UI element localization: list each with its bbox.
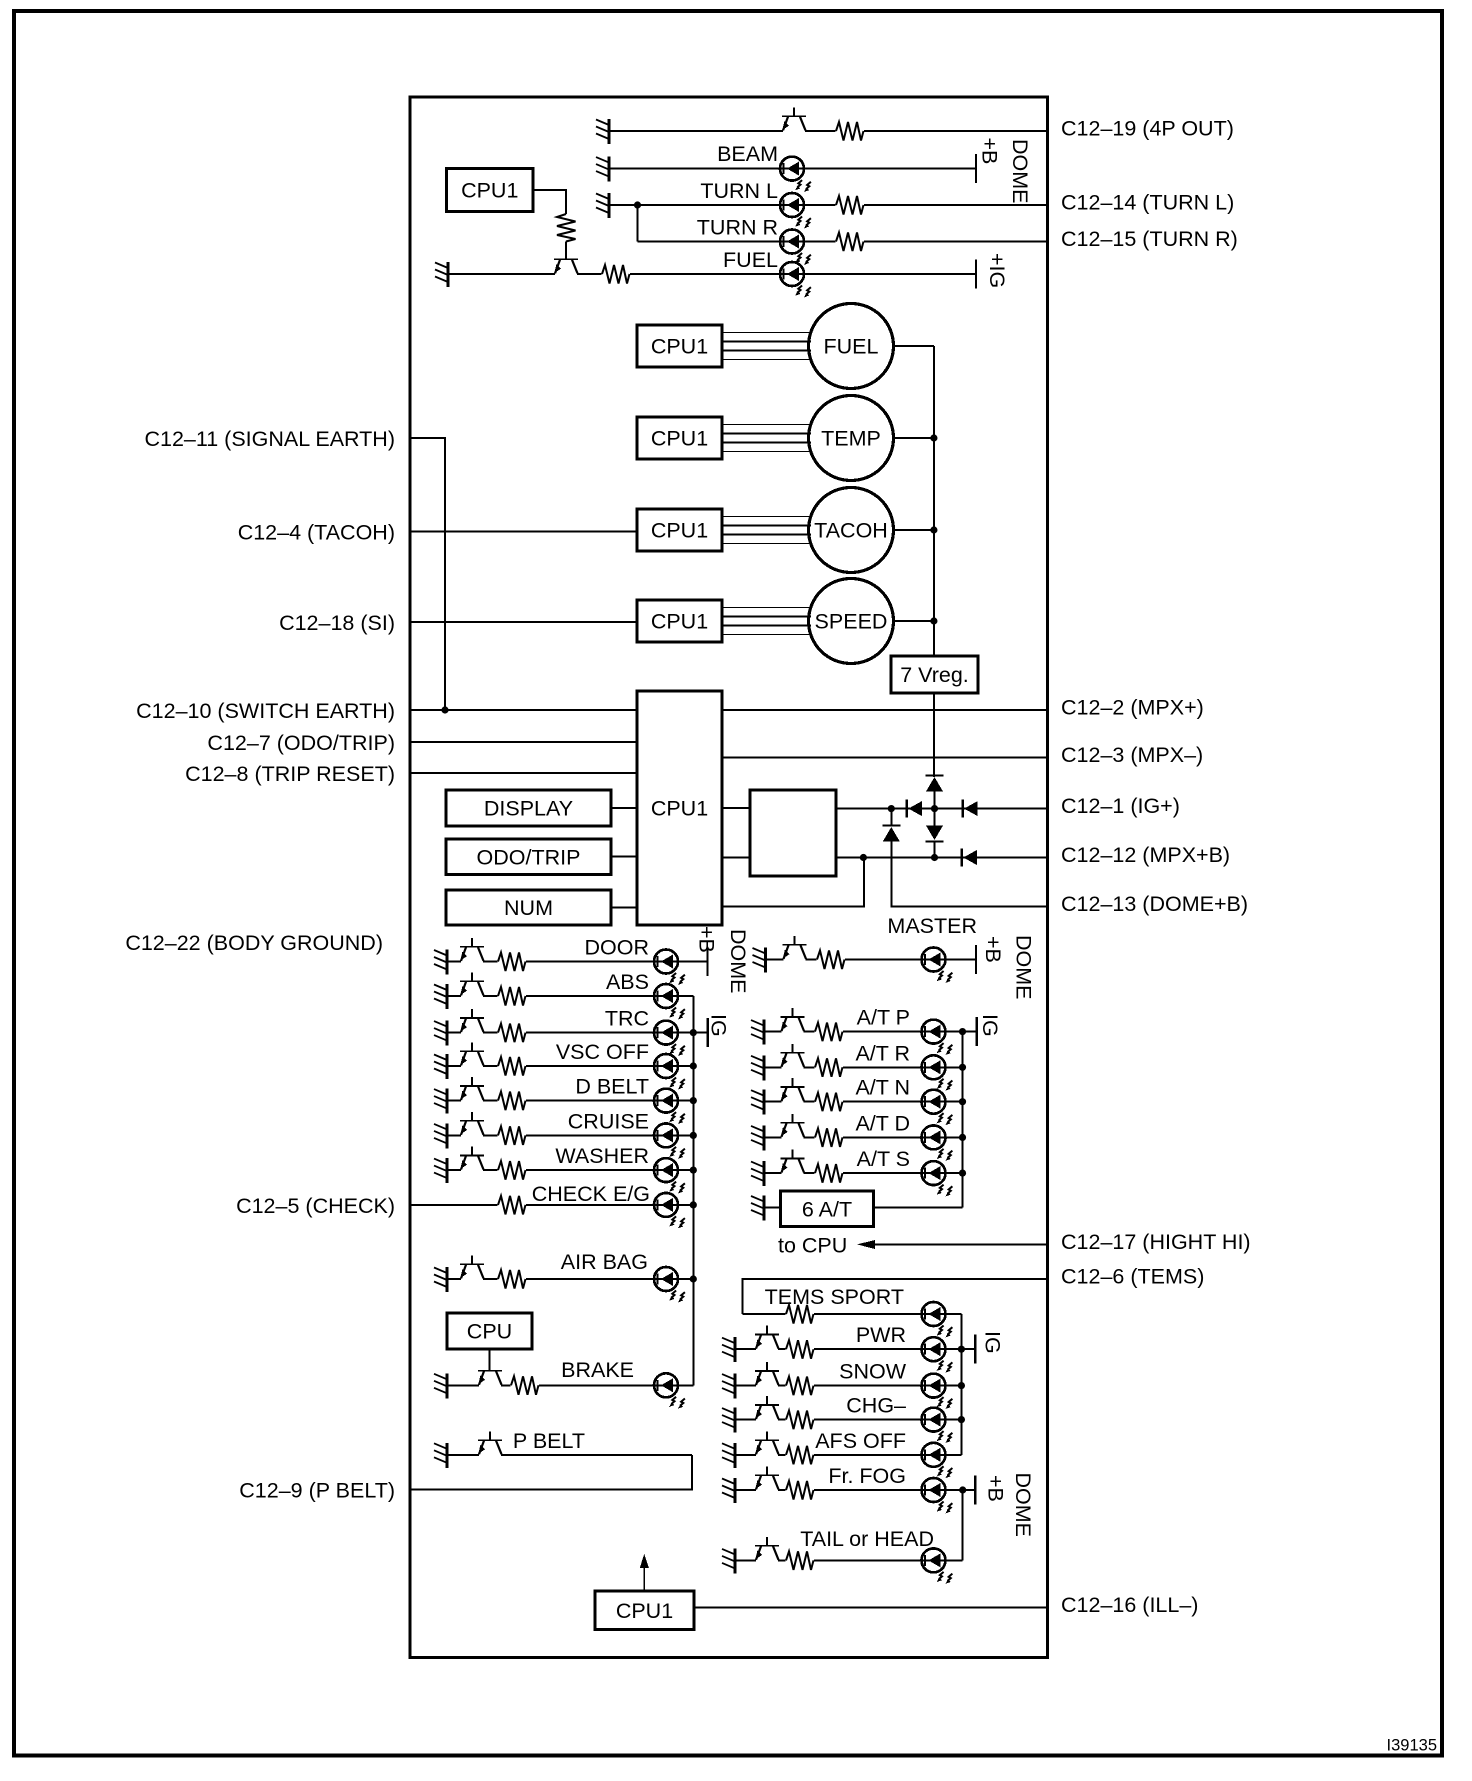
wire SPEED gauge to Vreg bus xyxy=(894,620,934,622)
svg-text:P BELT: P BELT xyxy=(513,1429,585,1453)
wire BRAKE row xyxy=(447,1384,693,1386)
diode D6 (DOME+B branch) xyxy=(882,826,900,842)
svg-text:PWR: PWR xyxy=(856,1323,906,1347)
wire C12-19 (4P OUT) row xyxy=(609,130,1047,132)
voltage regulator 7 Vreg. xyxy=(891,656,978,693)
wire TAIL branch vertical xyxy=(962,1490,964,1560)
resistor (SNOW row) xyxy=(786,1375,814,1397)
LED TEMS SPORT xyxy=(922,1302,953,1337)
svg-text:CPU1: CPU1 xyxy=(651,610,708,634)
wire TURN R row xyxy=(638,241,1048,243)
wire CHG– row xyxy=(735,1419,961,1421)
resistor (TRC row) xyxy=(498,1022,526,1044)
resistor (TEMS SPORT row) xyxy=(786,1303,814,1325)
wire C12-17 HIGHT HI input xyxy=(875,1243,1047,1245)
transistor (FUEL lamp driver) xyxy=(554,259,578,276)
junction dot (A/T P on A/T bus) xyxy=(959,1028,966,1035)
junction dot (SPEED on Vreg bus) xyxy=(930,617,937,624)
junction dot (signal earth junction) xyxy=(441,706,448,713)
LED AFS OFF xyxy=(922,1443,953,1478)
svg-text:SPEED: SPEED xyxy=(815,610,888,634)
svg-text:TURN L: TURN L xyxy=(700,179,778,203)
transistor (A/T D row driver) xyxy=(781,1114,805,1140)
svg-text:C12–4 (TACOH): C12–4 (TACOH) xyxy=(238,521,395,545)
svg-text:C12–11 (SIGNAL EARTH): C12–11 (SIGNAL EARTH) xyxy=(144,427,395,451)
svg-text:C12–13 (DOME+B): C12–13 (DOME+B) xyxy=(1061,892,1248,916)
svg-text:C12–15 (TURN R): C12–15 (TURN R) xyxy=(1061,227,1238,251)
wire Fr. FOG row xyxy=(735,1489,975,1491)
NUM block xyxy=(446,890,611,925)
wire ABS row xyxy=(447,995,693,997)
LED TURN L xyxy=(780,193,811,228)
diode D4 (Vreg bus lower) xyxy=(926,826,944,842)
LED TRC xyxy=(654,1021,685,1056)
svg-text:SNOW: SNOW xyxy=(839,1360,907,1384)
CPU1 block (illumination) xyxy=(595,1591,694,1630)
transistor (CHG– row driver) xyxy=(755,1396,779,1422)
LED VSC OFF xyxy=(654,1054,685,1089)
LED D BELT xyxy=(654,1089,685,1124)
svg-text:C12–22 (BODY GROUND): C12–22 (BODY GROUND) xyxy=(125,931,383,955)
LED A/T N xyxy=(922,1090,953,1125)
power terminal +B (MASTER) xyxy=(976,936,1005,974)
resistor (FUEL lamp row) xyxy=(602,263,630,285)
wire AFS OFF row xyxy=(735,1454,961,1456)
svg-text:C12–10 (SWITCH EARTH): C12–10 (SWITCH EARTH) xyxy=(136,699,395,723)
svg-text:CPU1: CPU1 xyxy=(616,1599,673,1623)
junction dot (CHG– on TEMS bus) xyxy=(958,1416,965,1423)
svg-text:WASHER: WASHER xyxy=(555,1144,649,1168)
LED CHECK E/G xyxy=(654,1193,685,1228)
svg-text:C12–12 (MPX+B): C12–12 (MPX+B) xyxy=(1061,843,1230,867)
svg-text:AIR BAG: AIR BAG xyxy=(561,1250,648,1274)
diode D3 (Vreg bus upper) xyxy=(926,776,944,792)
ground (CHG– row) xyxy=(722,1408,735,1433)
svg-text:BRAKE: BRAKE xyxy=(561,1358,634,1382)
ground (CRUISE row) xyxy=(434,1123,447,1148)
CPU1 block (FUEL gauge driver) xyxy=(637,325,722,367)
combination meter assembly outline xyxy=(410,97,1048,1658)
transistor (A/T S row driver) xyxy=(781,1150,805,1176)
resistor (4P OUT row) xyxy=(836,120,864,142)
svg-text:CPU1: CPU1 xyxy=(461,179,518,203)
wire gauge bus TEMP xyxy=(722,425,811,452)
wire Vreg bus seg3 xyxy=(934,842,936,858)
ground (ABS row) xyxy=(434,984,447,1009)
wire TAIL or HEAD row xyxy=(735,1559,963,1561)
wire MPX+B row xyxy=(836,857,1047,859)
junction dot (AIR BAG on IG bus) xyxy=(690,1275,697,1282)
wire WASHER row xyxy=(447,1169,693,1171)
power terminal +B (BEAM) xyxy=(976,138,1002,184)
transistor (4P OUT row driver) xyxy=(782,108,806,134)
LED WASHER xyxy=(654,1158,685,1193)
resistor (AFS OFF row) xyxy=(786,1444,814,1466)
wire P BELT row xyxy=(447,1454,692,1456)
svg-text:C12–16 (ILL–): C12–16 (ILL–) xyxy=(1061,1593,1198,1617)
svg-text:+B: +B xyxy=(984,1475,1008,1502)
junction dot (A/T N on A/T bus) xyxy=(959,1098,966,1105)
power terminal IG (TRC) xyxy=(707,1014,731,1047)
transistor (DOOR row driver) xyxy=(460,938,484,964)
diode D5 (MPX+B) xyxy=(962,849,977,867)
svg-text:+IG: +IG xyxy=(985,253,1009,288)
transistor (MASTER row driver) xyxy=(783,936,807,962)
svg-text:7 Vreg.: 7 Vreg. xyxy=(900,663,969,687)
svg-text:C12–18 (SI): C12–18 (SI) xyxy=(279,611,395,635)
wire A/T P row xyxy=(764,1031,977,1033)
wire P BELT to C12-9 xyxy=(410,1455,692,1490)
CPU1 block (TEMP gauge driver) xyxy=(637,417,722,459)
svg-text:TAIL or HEAD: TAIL or HEAD xyxy=(800,1527,934,1551)
wire TEMS bus vertical xyxy=(960,1314,962,1455)
power terminal IG (PWR) xyxy=(975,1331,1004,1364)
ground (TRC row) xyxy=(434,1021,447,1046)
svg-text:C12–17 (HIGHT HI): C12–17 (HIGHT HI) xyxy=(1061,1230,1251,1254)
svg-text:C12–5 (CHECK): C12–5 (CHECK) xyxy=(236,1194,395,1218)
wire TURN branch vertical xyxy=(637,205,639,242)
power terminal IG (A/T) xyxy=(977,1014,1002,1046)
svg-text:AFS OFF: AFS OFF xyxy=(815,1429,906,1453)
wire gauge bus TACOH xyxy=(722,517,811,544)
wire A/T R row xyxy=(764,1066,963,1068)
svg-text:MASTER: MASTER xyxy=(887,914,977,938)
6 A/T block xyxy=(781,1191,874,1227)
diode D2 (IG+ right) xyxy=(963,800,978,818)
driver IC block xyxy=(750,790,836,876)
LED A/T R xyxy=(922,1055,953,1090)
wire TEMP gauge to Vreg bus xyxy=(894,437,934,439)
resistor (ABS row) xyxy=(498,985,526,1007)
power terminal +IG (FUEL) xyxy=(976,253,1009,289)
resistor (A/T R row) xyxy=(815,1056,843,1078)
transistor (ABS row driver) xyxy=(460,973,484,999)
wire MPX- output xyxy=(722,757,1047,759)
ground (PWR row) xyxy=(722,1337,735,1362)
junction dot (CRUISE on IG bus) xyxy=(690,1132,697,1139)
LED AIR BAG xyxy=(654,1267,685,1302)
ground (BRAKE row) xyxy=(434,1373,447,1398)
svg-text:ABS: ABS xyxy=(606,970,649,994)
svg-text:to CPU: to CPU xyxy=(778,1234,847,1258)
LED A/T D xyxy=(922,1125,953,1160)
junction dot (IG+ Vreg bus junction) xyxy=(931,805,938,812)
wire CPU1 to driver IC lower xyxy=(722,857,750,859)
ground (AFS OFF row) xyxy=(722,1443,735,1468)
LED ABS xyxy=(654,984,685,1019)
wire CHECK E/G row xyxy=(410,1204,693,1206)
wire MASTER row xyxy=(766,959,977,961)
wire 6 A/T to bus xyxy=(874,1207,963,1209)
ground (A/T D row) xyxy=(751,1125,764,1150)
wire switch earth / MPX+ row xyxy=(410,709,1047,711)
wire CPU1 lower feed to MPX+B node xyxy=(722,858,864,907)
junction dot (MPX+B bus junction) xyxy=(931,854,938,861)
ground (4P OUT row) xyxy=(596,119,609,144)
svg-text:TRC: TRC xyxy=(605,1007,649,1031)
wire FUEL gauge to Vreg bus xyxy=(894,345,934,347)
ground (SNOW row) xyxy=(722,1374,735,1399)
CPU1 block (lamp driver) xyxy=(447,169,534,212)
gauge TEMP xyxy=(809,396,894,481)
svg-text:C12–19 (4P OUT): C12–19 (4P OUT) xyxy=(1061,117,1234,141)
svg-text:C12–7 (ODO/TRIP): C12–7 (ODO/TRIP) xyxy=(207,731,395,755)
svg-text:DOME: DOME xyxy=(1008,139,1032,204)
transistor (BRAKE row driver) xyxy=(478,1371,502,1388)
svg-text:IG: IG xyxy=(981,1331,1005,1354)
wire PWR row xyxy=(735,1348,975,1350)
wire C12-18 SI input xyxy=(410,621,637,623)
svg-text:C12–14 (TURN L): C12–14 (TURN L) xyxy=(1061,191,1234,215)
svg-text:TACOH: TACOH xyxy=(814,519,888,543)
LED PWR xyxy=(922,1337,953,1372)
LED FUEL lamp xyxy=(780,262,811,297)
resistor (CHG– row) xyxy=(786,1409,814,1431)
LED A/T P xyxy=(922,1020,953,1055)
wire CRUISE row xyxy=(447,1134,693,1136)
transistor (PWR row driver) xyxy=(755,1326,779,1352)
svg-text:6 A/T: 6 A/T xyxy=(802,1197,852,1221)
wire C12-16 ILL- output xyxy=(694,1607,1047,1609)
svg-text:TEMP: TEMP xyxy=(821,427,881,451)
wire ODO/TRIP to CPU1 xyxy=(611,856,637,858)
svg-text:C12–8 (TRIP RESET): C12–8 (TRIP RESET) xyxy=(185,762,395,786)
DISPLAY block xyxy=(446,790,611,826)
junction dot (SNOW on TEMS bus) xyxy=(958,1382,965,1389)
LED MASTER xyxy=(922,948,953,983)
wire gauge bus SPEED xyxy=(722,608,811,635)
junction dot (WASHER on IG bus) xyxy=(690,1167,697,1174)
wire Vreg bus vertical xyxy=(933,346,935,656)
wire IG+ row xyxy=(836,808,1047,810)
wire IG+ to D6 xyxy=(890,809,892,826)
resistor (WASHER row) xyxy=(498,1159,526,1181)
svg-text:TEMS SPORT: TEMS SPORT xyxy=(765,1285,904,1309)
resistor (TURN R row) xyxy=(836,231,864,253)
wire Vreg bus seg2 xyxy=(934,809,936,826)
wire Vreg bus seg xyxy=(934,792,936,809)
svg-text:CHECK E/G: CHECK E/G xyxy=(532,1182,650,1206)
LED DOOR xyxy=(654,950,685,985)
resistor (A/T N row) xyxy=(815,1091,843,1113)
svg-text:DOME: DOME xyxy=(726,929,750,994)
svg-text:FUEL: FUEL xyxy=(824,335,879,359)
ground (WASHER row) xyxy=(434,1158,447,1183)
LED TURN R xyxy=(780,230,811,265)
junction dot (TURN branch) xyxy=(634,201,641,208)
ground (TAIL or HEAD row) xyxy=(722,1548,735,1573)
wire C12-11 signal earth xyxy=(410,438,445,710)
svg-text:A/T N: A/T N xyxy=(855,1076,910,1100)
transistor (WASHER row driver) xyxy=(460,1147,484,1173)
svg-text:C12–3 (MPX–): C12–3 (MPX–) xyxy=(1061,743,1203,767)
CPU1 block (SPEED gauge driver) xyxy=(637,600,722,642)
wire A/T D row xyxy=(764,1136,963,1138)
ODO/TRIP block xyxy=(446,839,611,875)
wire A/T bus vertical xyxy=(962,1032,964,1208)
LED A/T S xyxy=(922,1161,953,1196)
wire TRC row xyxy=(447,1032,708,1034)
transistor (TAIL or HEAD row driver) xyxy=(755,1537,779,1563)
wire DOME+B output xyxy=(891,842,1047,907)
svg-text:+B: +B xyxy=(978,138,1002,165)
transistor (A/T P row driver) xyxy=(781,1008,805,1034)
ground (6 A/T) xyxy=(751,1196,764,1221)
wire TEMS SPORT row xyxy=(743,1313,962,1315)
svg-text:TURN R: TURN R xyxy=(697,216,778,240)
svg-text:IG: IG xyxy=(707,1014,731,1037)
svg-text:C12–9 (P BELT): C12–9 (P BELT) xyxy=(239,1479,395,1503)
junction dot (TRC IG junction) xyxy=(690,1029,697,1036)
resistor (VSC OFF row) xyxy=(498,1055,526,1077)
svg-text:IG: IG xyxy=(978,1014,1002,1037)
svg-text:FUEL: FUEL xyxy=(723,248,778,272)
wire FUEL lamp row xyxy=(448,273,976,275)
wire base resistor to transistor xyxy=(565,242,567,260)
svg-text:CPU1: CPU1 xyxy=(651,519,708,543)
svg-text:BEAM: BEAM xyxy=(717,142,778,166)
ground (A/T P row) xyxy=(751,1020,764,1045)
power terminal +B (DOOR) xyxy=(695,926,719,976)
LED CRUISE xyxy=(654,1123,685,1158)
svg-text:CRUISE: CRUISE xyxy=(568,1109,649,1133)
svg-text:CPU1: CPU1 xyxy=(651,797,708,821)
junction dot (CHECK on IG bus) xyxy=(690,1201,697,1208)
svg-text:DISPLAY: DISPLAY xyxy=(484,797,573,821)
wire TACOH gauge to Vreg bus xyxy=(894,529,934,531)
wire AIR BAG row xyxy=(447,1278,693,1280)
wire D BELT row xyxy=(447,1100,693,1102)
junction dot (VSC OFF on IG bus) xyxy=(690,1062,697,1069)
wire Vreg to diode network xyxy=(933,693,935,777)
resistor (BRAKE row) xyxy=(511,1374,539,1396)
wire 6 A/T ground lead xyxy=(764,1207,781,1209)
wire IG lamp bus vertical xyxy=(692,996,694,1385)
resistor (PWR row) xyxy=(786,1338,814,1360)
diode D1 (IG+ left) xyxy=(907,800,922,818)
svg-text:DOME: DOME xyxy=(1012,935,1036,1000)
transistor (CRUISE row driver) xyxy=(460,1112,484,1138)
wire C12-6 TEMS input xyxy=(743,1279,1047,1314)
gauge TACOH xyxy=(809,488,894,573)
resistor (TAIL or HEAD row) xyxy=(786,1549,814,1571)
svg-text:A/T D: A/T D xyxy=(855,1111,910,1135)
junction dot (A/T S on A/T bus) xyxy=(959,1170,966,1177)
transistor (TRC row driver) xyxy=(460,1009,484,1035)
junction dot (MPX+B left junction) xyxy=(860,854,867,861)
LED Fr. FOG xyxy=(922,1478,953,1513)
wire A/T N row xyxy=(764,1101,963,1103)
resistor (FUEL base) xyxy=(557,214,576,242)
wire C12-4 TACOH input xyxy=(410,531,637,533)
wire BEAM row xyxy=(609,168,976,170)
LED BEAM xyxy=(780,157,811,192)
transistor (AIR BAG row driver) xyxy=(460,1256,484,1282)
wire CPU1 to base resistor xyxy=(533,190,566,214)
resistor (TURN L row) xyxy=(836,194,864,216)
junction dot (D BELT on IG bus) xyxy=(690,1097,697,1104)
resistor (Fr. FOG row) xyxy=(786,1479,814,1501)
svg-text:VSC OFF: VSC OFF xyxy=(556,1040,649,1064)
wire TRIP RESET input xyxy=(410,772,637,774)
ground (AIR BAG row) xyxy=(434,1267,447,1292)
svg-text:CPU1: CPU1 xyxy=(651,335,708,359)
svg-text:CHG–: CHG– xyxy=(846,1394,906,1418)
junction dot (PWR on TEMS bus) xyxy=(958,1346,965,1353)
ground (P BELT row) xyxy=(434,1443,447,1468)
svg-text:C12–2 (MPX+): C12–2 (MPX+) xyxy=(1061,696,1204,720)
ground (A/T R row) xyxy=(751,1055,764,1080)
junction dot (A/T R on A/T bus) xyxy=(959,1064,966,1071)
svg-text:+B: +B xyxy=(695,926,719,953)
arrow (illumination output up) xyxy=(640,1554,649,1591)
ground (BEAM row) xyxy=(596,157,609,182)
gauge FUEL xyxy=(809,304,894,389)
junction dot (A/T D on A/T bus) xyxy=(959,1134,966,1141)
ground (D BELT row) xyxy=(434,1089,447,1114)
ground (A/T S row) xyxy=(751,1161,764,1186)
arrowhead (to CPU) xyxy=(857,1240,875,1249)
svg-text:A/T R: A/T R xyxy=(855,1041,910,1065)
resistor (MASTER row) xyxy=(817,949,845,971)
wire CPU to BRAKE transistor base xyxy=(489,1349,491,1371)
resistor (CRUISE row) xyxy=(498,1124,526,1146)
svg-text:CPU: CPU xyxy=(467,1320,512,1344)
svg-text:CPU1: CPU1 xyxy=(651,427,708,451)
LED CHG– xyxy=(922,1408,953,1443)
transistor (Fr. FOG row driver) xyxy=(755,1467,779,1493)
CPU1 main microprocessor xyxy=(637,691,722,925)
resistor (A/T P row) xyxy=(815,1021,843,1043)
resistor (CHECK E/G row) xyxy=(498,1194,526,1216)
transistor (SNOW row driver) xyxy=(755,1362,779,1388)
wire DISPLAY to CPU1 xyxy=(611,807,637,809)
wire gauge bus FUEL xyxy=(722,333,811,360)
svg-text:A/T S: A/T S xyxy=(857,1147,910,1171)
transistor (VSC OFF row driver) xyxy=(460,1043,484,1069)
resistor (A/T D row) xyxy=(815,1126,843,1148)
junction dot (Fr. FOG branch) xyxy=(959,1486,966,1493)
LED SNOW xyxy=(922,1374,953,1409)
ground (Fr. FOG row) xyxy=(722,1478,735,1503)
ground (FUEL lamp row) xyxy=(435,262,448,287)
svg-text:C12–1 (IG+): C12–1 (IG+) xyxy=(1061,794,1180,818)
ground (A/T N row) xyxy=(751,1090,764,1115)
wire VSC OFF row xyxy=(447,1065,693,1067)
wire TURN L row xyxy=(609,204,1047,206)
svg-text:I39135: I39135 xyxy=(1387,1737,1437,1755)
transistor (A/T N row driver) xyxy=(781,1078,805,1104)
CPU block (brake) xyxy=(447,1313,532,1349)
wire ODO/TRIP input xyxy=(410,741,637,743)
transistor (AFS OFF row driver) xyxy=(755,1431,779,1457)
svg-text:DOME: DOME xyxy=(1011,1473,1035,1538)
svg-text:+B: +B xyxy=(981,936,1005,963)
wire SNOW row xyxy=(735,1385,961,1387)
junction dot (TACOH on Vreg bus) xyxy=(930,526,937,533)
power terminal +B (Fr. FOG) xyxy=(975,1475,1007,1505)
svg-text:ODO/TRIP: ODO/TRIP xyxy=(477,845,581,869)
svg-text:DOOR: DOOR xyxy=(585,936,650,960)
CPU1 block (TACOH gauge driver) xyxy=(637,509,722,551)
resistor (A/T S row) xyxy=(815,1162,843,1184)
ground (VSC OFF row) xyxy=(434,1054,447,1079)
svg-text:C12–6 (TEMS): C12–6 (TEMS) xyxy=(1061,1264,1204,1288)
wire DOOR row xyxy=(447,961,708,963)
gauge SPEED xyxy=(809,579,894,664)
wire NUM to CPU1 xyxy=(611,907,637,909)
svg-text:D BELT: D BELT xyxy=(575,1075,649,1099)
